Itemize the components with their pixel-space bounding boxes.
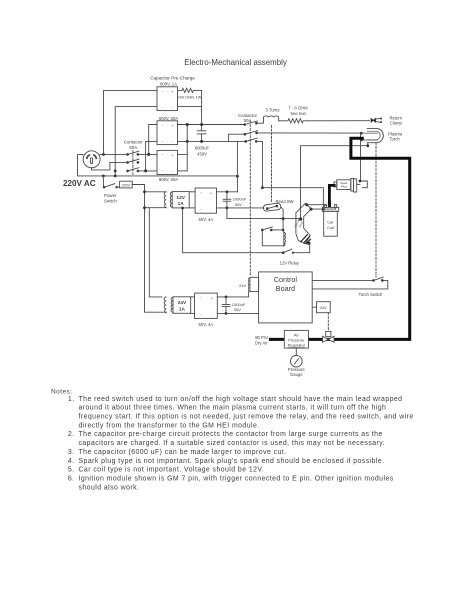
svg-text:50V: 50V — [234, 307, 241, 312]
svg-text:~: ~ — [200, 208, 202, 212]
node: riser/row3 junction — [114, 170, 117, 173]
svg-text:3 Turns: 3 Turns — [266, 107, 280, 112]
svg-text:~: ~ — [162, 139, 164, 143]
wire: second primary feed down to 24V transformer — [149, 208, 162, 297]
svg-text:Torch Switch: Torch Switch — [359, 292, 383, 297]
svg-text:600V, 50A: 600V, 50A — [159, 116, 178, 121]
svg-text:Gauge: Gauge — [290, 372, 303, 377]
dashed link: 24V to solenoid valve — [327, 313, 329, 332]
bridge rectifier BR1 (600V 1A pre-charge) — [157, 87, 178, 111]
svg-text:Regulator: Regulator — [288, 342, 306, 347]
relay contact (12V relay) — [282, 249, 310, 254]
transformer T1 secondary box 12V 1A — [170, 192, 189, 208]
svg-text:12V: 12V — [176, 195, 185, 201]
svg-text:~: ~ — [200, 296, 202, 300]
svg-text:24V: 24V — [239, 283, 246, 288]
wire: contactor K1 row3 to bridge3 and riser to bridge2 — [138, 170, 157, 172]
wire: bridge1 left-top terminal riser — [104, 91, 158, 155]
transformer T1 primary (12V) — [145, 192, 167, 208]
svg-text:~: ~ — [162, 123, 164, 127]
wire: HF lead to return clamp — [308, 120, 370, 122]
wire: 12V DC- to reed switch — [217, 207, 264, 209]
svg-text:1.: 1. — [68, 396, 75, 403]
wire: plug right lead to contactor row1 — [100, 153, 128, 155]
return clamp X1 — [371, 118, 382, 123]
svg-text:450V: 450V — [197, 151, 207, 156]
wire: plug bottom lead to contactor row2 — [92, 162, 128, 170]
bridge rectifier BR5 (50V 4A) — [191, 293, 218, 318]
svg-text:Ignition module shown is GM 7: Ignition module shown is GM 7 pin, with … — [79, 475, 394, 482]
pressure gauge — [291, 348, 303, 367]
svg-text:24V: 24V — [178, 300, 187, 306]
air pressure regulator — [284, 330, 308, 348]
svg-text:The reed switch used to turn o: The reed switch used to turn on/off the … — [79, 396, 403, 403]
wire: trigger down to module E pin — [300, 146, 302, 219]
wire: main lead branch down to 12V common — [236, 141, 238, 191]
torch switch wires — [312, 279, 373, 281]
svg-text:See text: See text — [290, 111, 306, 116]
svg-text:Board: Board — [276, 284, 295, 293]
wire: 12V common from T1 to relay contact — [183, 208, 284, 253]
svg-text:1A: 1A — [179, 307, 186, 313]
wire: 24V- to control board — [217, 312, 258, 314]
wire: reed switch to relay contact — [281, 207, 283, 230]
svg-text:+: + — [210, 191, 212, 195]
svg-text:Return: Return — [390, 115, 403, 120]
svg-text:220V AC: 220V AC — [63, 179, 96, 188]
notes text block — [51, 389, 414, 492]
svg-text:Switch: Switch — [104, 198, 117, 203]
svg-text:50V: 50V — [235, 202, 242, 207]
svg-text:Control: Control — [274, 275, 298, 284]
svg-text:Notes:: Notes: — [51, 389, 73, 396]
svg-text:50A: 50A — [129, 145, 137, 150]
svg-text:~: ~ — [162, 89, 164, 93]
wire: riser joining bridge right terminals — [186, 125, 188, 171]
wire: branch up to K2 middle pole — [229, 134, 245, 141]
svg-text:The capacitor pre-charge circu: The capacitor pre-charge circuit protect… — [79, 431, 383, 438]
svg-text:Capacitor Pre-Charge: Capacitor Pre-Charge — [150, 76, 195, 81]
svg-text:~: ~ — [200, 191, 202, 195]
svg-text:100 OHM, 1W: 100 OHM, 1W — [178, 96, 202, 100]
spark plug SP1 — [334, 178, 367, 192]
air hose (thick): regulator to torch — [271, 138, 410, 339]
connector: air valve drive 24V — [312, 306, 316, 308]
transformer T2 primary (24V) — [145, 297, 167, 313]
svg-text:Electro-Mechanical assembly: Electro-Mechanical assembly — [184, 58, 287, 67]
wire: DC- rail bridge2 right-bottom to contactor K2 — [178, 140, 246, 142]
svg-text:Dry Air: Dry Air — [255, 341, 268, 346]
svg-text:Plug: Plug — [341, 185, 347, 189]
solenoid valve V1 — [323, 331, 334, 342]
plug P1 (220V wall plug) — [83, 151, 100, 168]
svg-text:50V, 4A: 50V, 4A — [199, 217, 214, 222]
svg-text:directly from the transformer: directly from the transformer to the GM … — [79, 422, 260, 429]
capacitor C1 6000uF 450V — [197, 90, 206, 141]
wire: module C- pin to coil negative pin — [311, 207, 336, 209]
svg-text:5.: 5. — [68, 467, 75, 474]
plasma torch body — [361, 128, 383, 142]
svg-text:Torch: Torch — [389, 137, 400, 142]
HV lead (thick): coil to spark plug — [329, 185, 334, 203]
wire: contactor K1 row1 to bridge3 and riser to bridge2 — [138, 153, 157, 155]
wire: bridge1 left-bottom terminal riser — [115, 107, 157, 176]
wire: torch tip tap to trigger wire — [301, 143, 368, 146]
wire: HV lead torch to spark plug tip — [360, 133, 362, 181]
relay RL1 (12V relay) coil and contact — [261, 227, 285, 246]
wire: contactor K2 bottom pole to 12V+ rail — [256, 141, 262, 187]
wire: 24V+ to control board connector — [217, 292, 248, 297]
svg-text:Pressure: Pressure — [288, 367, 305, 372]
svg-text:+: + — [211, 297, 213, 301]
svg-text:~: ~ — [200, 313, 202, 317]
node: +12V feed joins coil wire — [322, 208, 325, 211]
svg-text:600V, 1A: 600V, 1A — [160, 81, 177, 86]
svg-text:Car coil type is not important: Car coil type is not important. Voltage … — [79, 467, 265, 474]
svg-text:Plasma: Plasma — [388, 131, 403, 136]
mechanical link contactor K1 — [132, 151, 134, 175]
mechanical link contactor K2 to control board connector — [249, 121, 251, 275]
svg-text:6000uF: 6000uF — [195, 146, 210, 151]
magnetic link: 3-turn wrap to reed switch — [271, 125, 273, 201]
wire: fuse box to transformer feed — [132, 185, 144, 313]
resistor R1 100 OHM 1W — [178, 88, 202, 92]
node: junction plug-right / bridge1 riser — [102, 153, 105, 156]
capacitor C2 1000uF 50V — [223, 192, 231, 208]
bridge rectifier BR4 (50V 4A) — [189, 188, 216, 213]
transformer T2 secondary box 24V 1A — [171, 297, 191, 314]
svg-text:frequency start. If this opti: frequency start. If this option is not n… — [79, 414, 414, 421]
svg-text:7 - 8 OHM: 7 - 8 OHM — [288, 106, 308, 111]
svg-text:~: ~ — [162, 153, 164, 157]
bridge rectifier BR3 (600V 50A) — [157, 150, 178, 174]
node: C1 on DC+ rail — [200, 123, 203, 126]
wire: 12V DC+ rail — [217, 191, 238, 193]
wire: module B+ pin to coil positive pin — [307, 204, 326, 207]
wire: bridge1 right-bottom to precharge node — [178, 106, 202, 108]
torch trigger link (dashed) to torch switch — [375, 143, 377, 277]
wire: +12V feed to coil — [262, 188, 323, 209]
ignition module U1 (GM HEI 7-pin) — [296, 203, 311, 244]
bridge rectifier BR2 (600V 50A) — [157, 121, 178, 145]
node: module pins — [305, 203, 308, 206]
svg-text:4.: 4. — [68, 458, 75, 465]
svg-text:50V, 4A: 50V, 4A — [199, 322, 214, 327]
svg-text:The capacitor (6000 uF) can be: The capacitor (6000 uF) can be made larg… — [79, 449, 287, 456]
wire: work lead to torch upper terminal — [257, 132, 362, 134]
svg-text:Car: Car — [327, 220, 334, 225]
svg-text:80 PSI: 80 PSI — [255, 335, 268, 340]
svg-text:3.: 3. — [68, 449, 75, 456]
svg-text:around it about three times.: around it about three times. When the ma… — [79, 405, 387, 412]
svg-text:12V Relay: 12V Relay — [280, 261, 300, 266]
svg-text:~: ~ — [162, 169, 164, 173]
control board — [259, 272, 313, 323]
svg-text:Clamp: Clamp — [390, 121, 403, 126]
capacitor C3 1000uF 50V — [222, 297, 230, 314]
svg-text:+: + — [171, 124, 173, 128]
svg-text:24V: 24V — [320, 305, 327, 310]
svg-text:~: ~ — [162, 105, 164, 109]
svg-text:1000uF: 1000uF — [232, 302, 246, 307]
svg-text:220V: 220V — [122, 183, 131, 187]
svg-text:1A: 1A — [178, 201, 185, 207]
torch switch — [372, 277, 383, 282]
wire: reed bypass to module E pin — [227, 208, 301, 219]
svg-text:+: + — [171, 90, 173, 94]
svg-text:600V, 50A: 600V, 50A — [159, 177, 178, 182]
svg-text:capacitors are charged. If a: capacitors are charged. If a suitable si… — [79, 440, 386, 447]
svg-text:should also work.: should also work. — [79, 484, 140, 491]
wire: module W trigger pin down to relay wire — [308, 243, 311, 252]
power switch S1 — [103, 176, 120, 189]
wire: plug left lead down to bottom rail — [78, 155, 238, 176]
car coil T3 — [322, 203, 338, 237]
fuse box 220V — [120, 181, 133, 188]
svg-text:+: + — [171, 154, 173, 158]
connector: contactor coil drive (24V) — [248, 277, 258, 291]
svg-text:1000uF: 1000uF — [233, 197, 247, 202]
svg-text:Coil: Coil — [327, 225, 334, 230]
wire: DC+ rail bridge2/3 right to contactor K2 — [178, 124, 245, 126]
svg-text:6.: 6. — [68, 475, 75, 482]
svg-text:Spark plug type is not importa: Spark plug type is not important. Spark … — [79, 458, 385, 465]
svg-text:2.: 2. — [68, 431, 75, 438]
node: rail junctions — [102, 175, 105, 178]
